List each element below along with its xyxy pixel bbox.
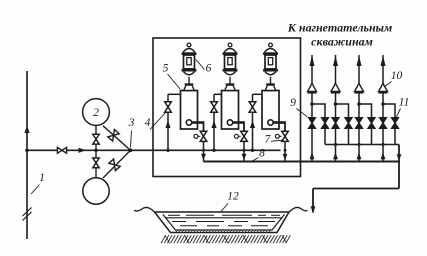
gate valve on well line 2 [332, 118, 339, 129]
discharge elbow down unit 1 [203, 121, 205, 131]
junction node 3 [129, 148, 133, 152]
pit water surface [165, 217, 282, 219]
bypass drop pipe 2 [348, 128, 350, 144]
discharge stub unit 3 [273, 121, 285, 124]
well line 4 riser [382, 55, 384, 162]
leader for label 5 [168, 74, 181, 89]
discharge drop pipe unit 1 [203, 141, 205, 161]
junction dot well 2 [334, 102, 338, 106]
valve above header [93, 134, 99, 144]
leader for label 1 [31, 185, 40, 195]
discharge header pipe 8 [204, 160, 401, 162]
crossing blob on suction header unit 1 [202, 149, 205, 152]
junction dot suction 2 on header [212, 149, 215, 152]
leader for label 8 [251, 158, 259, 163]
flow arrow up suction 1 [165, 121, 170, 129]
bypass valve 11 line 4 [392, 118, 399, 129]
plunger pump 5 body unit 1 [181, 91, 198, 130]
pit outer wall [155, 212, 290, 233]
safety valve 7 unit 2 [241, 131, 248, 141]
bypass drop pipe 3 [371, 128, 373, 144]
safety valve 7 unit 1 [200, 131, 207, 141]
svg-text:8: 8 [259, 148, 265, 160]
leader for label 11 [396, 109, 400, 118]
leader for label 3 [131, 131, 132, 148]
suction elbow into pump 1 [168, 93, 181, 95]
suction valve 4 unit 2 [211, 102, 218, 112]
svg-text:12: 12 [227, 191, 239, 203]
ground hatch under pit [161, 235, 166, 243]
flow arrow up from header well 1 [310, 152, 315, 159]
pump outlet port unit 1 [186, 120, 191, 125]
check valve 10 well 1 [308, 83, 317, 91]
suction elbow into pump 3 [253, 93, 263, 95]
junction node at header tee [94, 149, 98, 153]
bypass loop pipe 3 [359, 104, 372, 118]
flow arrow down drain [397, 154, 402, 161]
check valve 10 well 4 [379, 83, 388, 91]
drain run pipe [313, 188, 399, 190]
gate valve on suction header [57, 147, 66, 153]
leader for label 9 [297, 109, 308, 117]
pump outlet port unit 3 [268, 120, 273, 125]
pit left berm hook [134, 208, 155, 212]
pipe break marks on line 1 [23, 208, 32, 217]
check valve 10 well 3 [355, 83, 364, 91]
centrifugal pump 2 [83, 99, 110, 126]
svg-text:4: 4 [145, 117, 151, 129]
pit bottom hatch strip [176, 230, 273, 233]
junction dot suction 1 on header [166, 149, 169, 152]
leader for label 12 [221, 204, 229, 213]
check valve 10 well 2 [331, 83, 340, 91]
flow arrow down discharge 2 [242, 154, 247, 161]
leader for label 10 [384, 82, 392, 88]
gate valve on well line 3 [356, 118, 363, 129]
svg-text:2: 2 [93, 107, 99, 119]
junction on line 1 [25, 149, 29, 153]
valve below header [93, 158, 99, 168]
discharge elbow down unit 3 [284, 121, 286, 131]
flow arrow to well 4 [381, 56, 386, 67]
junction dot suction 3 on header [251, 149, 254, 152]
well line 3 riser [358, 55, 360, 162]
crossing blob on suction header unit 2 [243, 149, 246, 152]
svg-text:9: 9 [290, 97, 296, 109]
junction dot well 3 [357, 102, 361, 106]
well line 1 riser [311, 55, 313, 162]
pump branch pipe lower [95, 150, 97, 178]
svg-text:1: 1 [39, 172, 45, 184]
crossing blob on suction header unit 3 [284, 149, 287, 152]
discharge drop pipe unit 2 [243, 141, 245, 161]
standby centrifugal pump [83, 178, 109, 204]
leader for label 4 [150, 112, 167, 130]
svg-text:10: 10 [391, 70, 403, 82]
suction riser pump unit 1 [167, 94, 169, 150]
pump branch pipe upper [95, 125, 97, 150]
drain drop from manifold [398, 145, 400, 189]
flow arrow up on line 1 [24, 126, 29, 134]
air compensator 6 unit 2 [228, 43, 232, 47]
flow arrow to well 1 [310, 56, 315, 67]
gate valve on well line 1 [309, 118, 316, 129]
junction dot well 1 [310, 102, 314, 106]
flow arrow up from header well 3 [357, 152, 362, 159]
discharge stub unit 1 [192, 121, 204, 124]
pit rim line [155, 211, 290, 213]
valve on upper diagonal [108, 130, 119, 142]
suction riser pump unit 3 [252, 94, 254, 150]
svg-text:7: 7 [265, 134, 272, 146]
flow arrow down discharge 1 [201, 154, 206, 161]
bypass valve 11 line 2 [345, 118, 352, 129]
bypass drop pipe 1 [324, 128, 326, 144]
discharge stub unit 2 [233, 121, 244, 124]
pump outlet port unit 2 [227, 120, 232, 125]
bypass drop pipe 4 [394, 128, 396, 144]
junction dot on lower header 3 [357, 143, 360, 146]
svg-text:11: 11 [399, 97, 410, 109]
flow arrow up from header well 4 [381, 152, 386, 159]
bypass loop pipe 2 [336, 104, 349, 118]
plunger pump 5 body unit 2 [222, 91, 239, 130]
svg-text:3: 3 [128, 117, 135, 129]
leader for label 6 [196, 60, 205, 70]
water supply line 1 [26, 71, 28, 239]
discharge elbow down unit 2 [243, 121, 245, 131]
suction valve 4 unit 1 [165, 102, 172, 112]
suction valve 4 unit 3 [249, 102, 256, 112]
suction elbow into pump 2 [214, 93, 222, 95]
discharge diagonal from standby pump [103, 150, 131, 178]
flow arrow to well 3 [357, 56, 362, 67]
bypass valve 11 line 3 [368, 118, 375, 129]
svg-text:6: 6 [206, 63, 212, 75]
svg-text:5: 5 [163, 63, 169, 75]
safety valve 7 unit 3 [282, 131, 289, 141]
plunger pump 5 body unit 3 [262, 91, 279, 130]
svg-text:скважинам: скважинам [311, 35, 373, 49]
well line 2 riser [335, 55, 337, 162]
flow arrow right on header [79, 148, 87, 153]
junction dot on lower header 2 [334, 143, 337, 146]
pit water dashes [168, 214, 180, 216]
bypass loop pipe 4 [383, 104, 395, 118]
junction dot well 4 [381, 102, 385, 106]
gate valve on well line 4 [380, 118, 387, 129]
air compensator 6 unit 3 [269, 43, 273, 47]
drain outlet pipe to pit [312, 189, 314, 213]
flow arrow down discharge 3 [283, 154, 288, 161]
pump house outline [153, 38, 301, 177]
flow arrow into pit [311, 206, 316, 213]
svg-text:К нагнетательным: К нагнетательным [287, 21, 392, 35]
suction header pipe [27, 149, 281, 151]
flow arrow to well 2 [333, 56, 338, 67]
leader for label 7 [271, 140, 284, 141]
flow arrow up from header well 2 [333, 152, 338, 159]
discharge drop pipe unit 3 [284, 141, 286, 161]
lower cross header of manifold [325, 144, 399, 146]
pit right berm hook [289, 208, 308, 212]
air compensator 6 unit 1 [187, 43, 191, 47]
junction dot on lower header 4 [381, 143, 384, 146]
bypass valve 11 line 1 [322, 118, 329, 129]
bypass loop pipe 1 [312, 104, 325, 118]
valve on lower diagonal [109, 159, 120, 171]
flow arrow up suction 3 [250, 121, 255, 129]
flow arrow up suction 2 [211, 121, 216, 129]
discharge diagonal from pump 2 [103, 126, 131, 151]
suction riser pump unit 2 [213, 94, 215, 150]
pit inner wall [163, 215, 285, 231]
